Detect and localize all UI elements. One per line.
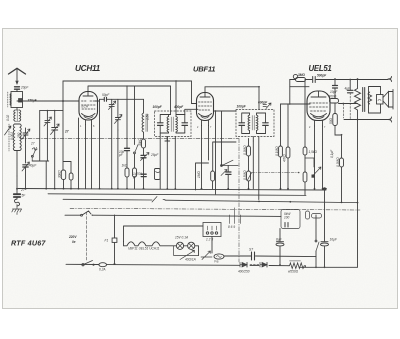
resistor R13 bbox=[287, 104, 289, 147]
electrolytic C13 bbox=[159, 133, 161, 189]
diode D2 bbox=[260, 262, 267, 267]
top loop wire around UCH11 bbox=[63, 81, 197, 104]
electrolytic C23 8uF bbox=[279, 229, 281, 265]
speaker voice coil box bbox=[377, 95, 384, 105]
wire tube cathode down bbox=[86, 125, 92, 189]
capacitor C4 40uF bbox=[23, 165, 28, 167]
wire speaker return down bbox=[357, 120, 359, 203]
svg-text:100pF: 100pF bbox=[153, 105, 163, 109]
output terminal top bbox=[388, 77, 392, 82]
wire column x215 bbox=[215, 111, 217, 194]
diode D1 bbox=[240, 262, 247, 267]
resistor R2 bbox=[69, 173, 73, 180]
wire bbox=[16, 89, 18, 91]
resistor R7 400ohm bbox=[330, 99, 339, 104]
band switch S2 bbox=[221, 160, 238, 165]
svg-text:UBF11 UEL51 UCH11: UBF11 UEL51 UCH11 bbox=[128, 247, 160, 251]
svg-text:8 6 9: 8 6 9 bbox=[228, 225, 235, 229]
tuning coil L3 with trimmers bbox=[13, 124, 14, 150]
svg-text:600pF: 600pF bbox=[258, 101, 268, 105]
wire b+ row bbox=[357, 202, 359, 204]
svg-text:0.3MΩ: 0.3MΩ bbox=[336, 157, 340, 167]
svg-text:1MΩ: 1MΩ bbox=[197, 171, 201, 178]
svg-text:UCH11: UCH11 bbox=[75, 64, 101, 73]
wire band row bbox=[213, 142, 236, 171]
capacitor C6 50pF series bbox=[104, 97, 106, 101]
trimmer arrow bbox=[5, 126, 11, 135]
tube UBF11 envelope bbox=[197, 93, 214, 121]
IF transformer T2 dashed box bbox=[236, 110, 274, 137]
selector pins 8 6 9 bbox=[230, 208, 241, 224]
wire y161 bbox=[32, 161, 49, 189]
secondary loop box bbox=[369, 87, 381, 114]
wire cathode bbox=[314, 126, 316, 170]
capacitor C5 bbox=[14, 194, 20, 197]
capacitor C16 in T2 bbox=[239, 123, 245, 126]
oscillator coil L5 bbox=[143, 99, 145, 113]
capacitor C1 20pF bbox=[15, 87, 20, 89]
svg-text:0.1MΩ: 0.1MΩ bbox=[275, 146, 279, 156]
svg-text:0.002: 0.002 bbox=[10, 132, 14, 140]
wire T1b feed bbox=[175, 81, 177, 115]
svg-text:500pF: 500pF bbox=[317, 74, 327, 78]
paper noise filter bbox=[0, 0, 1, 1]
ground bbox=[12, 205, 22, 215]
schematic artwork bbox=[5, 68, 394, 268]
svg-text:0.3MΩ: 0.3MΩ bbox=[243, 145, 247, 155]
wire 400ohm to transformer bbox=[339, 103, 358, 105]
heater filaments bbox=[124, 242, 177, 246]
svg-text:3MΩ: 3MΩ bbox=[298, 73, 305, 77]
svg-text:10pF: 10pF bbox=[330, 90, 338, 94]
output terminal bottom bbox=[344, 119, 388, 121]
trimmer C10b bbox=[52, 111, 58, 189]
trimmer cap C7 bbox=[109, 99, 114, 188]
transformer core bbox=[363, 88, 365, 112]
svg-text:1 2 3: 1 2 3 bbox=[206, 238, 213, 242]
svg-text:i=a: i=a bbox=[214, 260, 219, 264]
node screen-grid junction bbox=[289, 103, 291, 105]
ps box bbox=[281, 210, 300, 229]
capacitor C19 bbox=[333, 86, 338, 89]
resistor R12 0.1M bbox=[280, 104, 282, 146]
wire top right row bbox=[290, 79, 388, 81]
capacitor C2 250pF bbox=[19, 99, 23, 102]
AVC dashed line bbox=[252, 172, 299, 174]
antenna bbox=[9, 68, 26, 74]
svg-text:15V 0.1A: 15V 0.1A bbox=[175, 236, 188, 240]
svg-text:27: 27 bbox=[64, 130, 69, 134]
diode link dash bbox=[250, 264, 259, 266]
capacitor C21 bbox=[226, 172, 231, 174]
pot P2 bbox=[201, 251, 212, 260]
wire R1 R2 top link bbox=[64, 162, 72, 174]
wire bbox=[39, 111, 41, 161]
svg-text:40µF: 40µF bbox=[29, 164, 37, 168]
capacitor C17 in T2 bbox=[263, 123, 269, 126]
wire output top bbox=[349, 79, 351, 81]
resistor R15 zigzag bbox=[288, 263, 306, 269]
wire row 255 bbox=[224, 255, 316, 258]
svg-text:w550Ω: w550Ω bbox=[288, 270, 299, 274]
tube UEL51 envelope bbox=[307, 91, 330, 121]
switch S1 bbox=[134, 86, 136, 189]
capacitor C11 250pF bbox=[141, 155, 146, 157]
dial pointer dash-dot vertical bbox=[238, 139, 240, 262]
svg-text:0.02: 0.02 bbox=[6, 115, 10, 121]
tube UBF11 legs bbox=[202, 121, 209, 126]
svg-text:50pF: 50pF bbox=[102, 93, 110, 97]
node T2 top bbox=[258, 86, 260, 88]
main ground bus wire bbox=[17, 189, 326, 191]
resistor R1 30k bbox=[61, 170, 65, 180]
capacitor C12 14700pF bbox=[141, 174, 146, 176]
svg-text:16µF: 16µF bbox=[330, 238, 338, 242]
svg-text:100pF: 100pF bbox=[237, 105, 247, 109]
wire T1 out bbox=[185, 109, 198, 114]
switch S4 upper bbox=[65, 211, 281, 216]
wire grid row UCH11 bbox=[17, 100, 79, 102]
svg-text:400Ω: 400Ω bbox=[329, 95, 337, 99]
svg-text:30kΩ: 30kΩ bbox=[58, 170, 62, 178]
dial cord dash-dot line bbox=[20, 138, 239, 140]
mains bottom wire bbox=[66, 264, 288, 265]
coil T2b bbox=[257, 115, 259, 131]
heater chain top wire bbox=[124, 226, 204, 242]
wire y110.6 bbox=[40, 110, 63, 112]
speaker cone bbox=[383, 92, 389, 108]
wire column x258.8 bbox=[258, 137, 260, 200]
coil L4 bbox=[14, 199, 19, 206]
coil T1a bbox=[167, 117, 169, 133]
svg-text:400pF: 400pF bbox=[173, 105, 184, 109]
wire anode top bbox=[334, 79, 336, 86]
svg-text:40Ω/1A: 40Ω/1A bbox=[185, 258, 196, 262]
variable cap C3 bbox=[23, 128, 28, 140]
wire T2 bottom bbox=[252, 137, 254, 142]
scale lamp oval bbox=[214, 254, 224, 259]
switch S5 bbox=[315, 215, 317, 267]
capacitor C10 bbox=[125, 148, 130, 150]
coil T1b bbox=[176, 117, 178, 133]
trimmer C8 bbox=[115, 99, 120, 130]
wire T2 in from top bbox=[258, 87, 260, 110]
svg-text:220V: 220V bbox=[68, 235, 77, 239]
resistor R18 bbox=[125, 168, 129, 177]
switch link dash bbox=[86, 212, 88, 262]
wire screen bbox=[322, 126, 324, 189]
lamp bbox=[293, 74, 297, 78]
svg-text:27: 27 bbox=[30, 142, 35, 146]
coil L2 bbox=[14, 110, 15, 121]
wire UBF11 legs down bbox=[202, 126, 209, 189]
capacitor C22 ST bbox=[252, 252, 255, 260]
trimmer C9 bbox=[45, 111, 50, 161]
electrolytic C24 16uF bbox=[324, 247, 326, 268]
svg-text:100: 100 bbox=[284, 216, 290, 220]
svg-text:47kΩ: 47kΩ bbox=[283, 154, 287, 162]
svg-text:400/250: 400/250 bbox=[238, 270, 250, 274]
wire bbox=[16, 108, 18, 111]
wave switch S6 bbox=[32, 148, 37, 162]
wire loop-left column bbox=[62, 101, 64, 170]
svg-text:UBF11: UBF11 bbox=[193, 65, 215, 74]
svg-text:F1: F1 bbox=[105, 239, 109, 243]
svg-text:0,1µF: 0,1µF bbox=[330, 149, 334, 158]
wire right edge bbox=[300, 203, 358, 268]
resistor R4 0.3M bbox=[248, 139, 250, 147]
resistor R5 bbox=[248, 156, 250, 171]
capacitor C14 in T1 bbox=[158, 123, 164, 126]
fuse F1 bbox=[114, 215, 116, 264]
trimmer C25 600pF bbox=[263, 103, 271, 109]
mid bus wires bbox=[48, 194, 306, 196]
svg-text:1kΩ: 1kΩ bbox=[122, 164, 128, 168]
chassis dash-dot long bbox=[70, 208, 360, 210]
wire left drop bbox=[281, 80, 311, 105]
svg-text:270µF: 270µF bbox=[27, 99, 38, 103]
wire selector down bbox=[211, 237, 213, 254]
resistor R14 bbox=[304, 80, 306, 148]
svg-text:25pF: 25pF bbox=[150, 153, 159, 157]
IF transformer T1 dashed box bbox=[155, 111, 192, 137]
junction bbox=[323, 187, 326, 190]
capacitor C18 500pF bbox=[313, 77, 316, 83]
wire column bbox=[126, 86, 128, 148]
svg-text:20pF: 20pF bbox=[20, 86, 29, 90]
mains switch S3 bbox=[82, 264, 84, 266]
resistor R11 bbox=[211, 171, 215, 181]
volume pot P1 bbox=[312, 170, 325, 180]
wire to diode plate bbox=[214, 110, 237, 112]
svg-text:27: 27 bbox=[20, 188, 25, 192]
lamp LA2 bbox=[188, 242, 195, 249]
wire bbox=[16, 151, 18, 177]
mains plug bbox=[99, 263, 107, 267]
wire T1 in bbox=[170, 86, 172, 115]
capacitor C20 bbox=[348, 90, 353, 93]
junction dots bbox=[45, 188, 315, 190]
svg-text:0.2A: 0.2A bbox=[99, 268, 106, 272]
tube UEL51 legs bbox=[315, 121, 323, 126]
lamp LA1 bbox=[176, 242, 183, 249]
secondary zigzag bbox=[368, 92, 372, 104]
svg-text:2,50: 2,50 bbox=[146, 114, 150, 121]
wire bus y84.5 bbox=[88, 86, 171, 92]
antenna coil L1 box bbox=[11, 92, 23, 108]
coil T2a bbox=[248, 115, 250, 131]
svg-text:0.5MΩ: 0.5MΩ bbox=[243, 170, 247, 180]
resistor R9 0.3M vertical bbox=[341, 135, 343, 158]
svg-text:ECH: ECH bbox=[82, 105, 89, 109]
wire node A bbox=[25, 140, 27, 163]
pin digits group bbox=[80, 125, 326, 129]
svg-text:0e: 0e bbox=[72, 240, 76, 244]
resistor R16 bbox=[306, 211, 310, 219]
resistor R3 30k vertical bbox=[142, 139, 146, 148]
wire bbox=[117, 130, 119, 189]
svg-text:1,5kΩ: 1,5kΩ bbox=[309, 150, 318, 154]
wire column x221 bbox=[221, 111, 223, 166]
wire grid stub bbox=[290, 86, 309, 88]
capacitor C15 in T1 bbox=[182, 123, 188, 126]
resistor R6 3M bbox=[296, 78, 306, 82]
voltage selector bbox=[203, 223, 221, 237]
tube UCH11 envelope bbox=[79, 92, 98, 121]
tube UCH11 legs bbox=[86, 120, 92, 125]
svg-text:30kΩ: 30kΩ bbox=[138, 138, 142, 146]
resistor R19 bbox=[133, 168, 137, 177]
resistor R8 50ohm bbox=[333, 114, 338, 126]
svg-text:250: 250 bbox=[17, 132, 21, 139]
svg-text:50Ω: 50Ω bbox=[329, 117, 333, 124]
wire T1 gnd bbox=[167, 137, 175, 190]
output transformer primary zigzag bbox=[355, 79, 361, 120]
wire UBF11 top cap bbox=[205, 87, 259, 93]
wire osc row y99.3 bbox=[100, 98, 144, 100]
svg-text:UEL51: UEL51 bbox=[309, 64, 332, 73]
svg-text:RTF 4U67: RTF 4U67 bbox=[11, 238, 46, 247]
resistor R17 100ohm bbox=[312, 214, 322, 219]
wire column x253 bbox=[252, 141, 254, 189]
rheostat bbox=[174, 246, 199, 260]
